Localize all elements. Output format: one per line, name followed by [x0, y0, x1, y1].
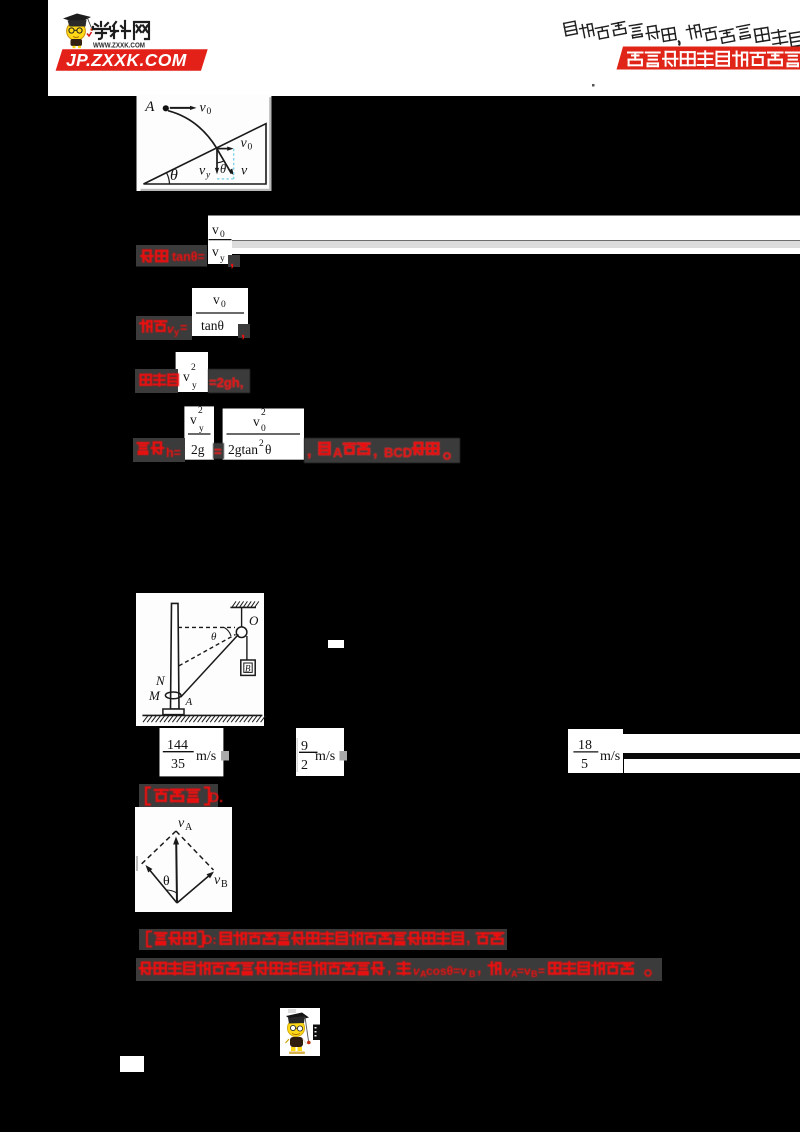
svg-text:v: v — [178, 816, 185, 831]
svg-text:θ: θ — [211, 631, 217, 643]
svg-text:y: y — [174, 327, 179, 337]
svg-text:O: O — [249, 613, 259, 628]
svg-text:,: , — [466, 930, 470, 947]
svg-text:v: v — [241, 164, 248, 179]
svg-text:v: v — [212, 222, 219, 237]
svg-text:=: = — [180, 321, 187, 335]
svg-text:A: A — [185, 822, 193, 833]
svg-text:v: v — [199, 164, 206, 179]
svg-text:θ: θ — [265, 442, 271, 457]
svg-text:M: M — [148, 688, 161, 703]
svg-text:cosθ=v: cosθ=v — [426, 964, 467, 978]
svg-text:v: v — [183, 369, 190, 384]
svg-text:θ: θ — [220, 162, 226, 176]
svg-text:v: v — [241, 136, 248, 151]
svg-text:v: v — [213, 292, 220, 307]
svg-text:=: = — [538, 964, 545, 978]
svg-text:B: B — [221, 879, 228, 890]
svg-text:y: y — [199, 424, 204, 434]
svg-text:v: v — [190, 412, 197, 427]
svg-text:0: 0 — [261, 424, 266, 434]
svg-text:A: A — [185, 696, 193, 708]
svg-text:v: v — [212, 244, 219, 259]
svg-text:,: , — [230, 253, 234, 270]
svg-text:=: = — [214, 444, 222, 459]
svg-text:θ: θ — [170, 167, 178, 184]
svg-text:2: 2 — [198, 406, 203, 416]
svg-text:BCD: BCD — [384, 445, 412, 460]
svg-text:2: 2 — [301, 758, 308, 773]
svg-text:tanθ: tanθ — [201, 318, 224, 333]
svg-text:v: v — [214, 873, 221, 888]
svg-text:0: 0 — [248, 143, 253, 153]
svg-text:2: 2 — [191, 363, 196, 373]
svg-text:A: A — [333, 445, 343, 460]
svg-text:m/s: m/s — [196, 749, 216, 764]
svg-text:,: , — [373, 443, 377, 460]
svg-text:tanθ=: tanθ= — [172, 250, 205, 264]
svg-text:2gtan: 2gtan — [228, 442, 258, 457]
svg-text:=2gh,: =2gh, — [209, 375, 243, 390]
svg-text:y: y — [220, 254, 225, 264]
svg-text:v: v — [253, 414, 260, 429]
svg-text:B: B — [245, 664, 251, 674]
svg-text:B: B — [531, 969, 538, 979]
svg-text:,: , — [387, 960, 391, 977]
svg-text:D:: D: — [203, 932, 217, 947]
svg-text:WWW.ZXXK.COM: WWW.ZXXK.COM — [93, 41, 145, 50]
svg-text:,: , — [241, 324, 245, 341]
svg-text:2: 2 — [261, 408, 266, 418]
svg-text:N: N — [155, 673, 166, 688]
svg-text:,: , — [307, 443, 311, 460]
svg-text:0: 0 — [221, 300, 226, 310]
svg-text:18: 18 — [578, 738, 592, 753]
svg-text:y: y — [205, 171, 211, 181]
svg-text:y: y — [192, 381, 197, 391]
svg-text:v: v — [200, 101, 207, 116]
svg-text:=v: =v — [517, 964, 531, 978]
svg-text:,: , — [477, 960, 481, 977]
svg-text:m/s: m/s — [600, 749, 620, 764]
svg-text:h=: h= — [166, 446, 181, 460]
svg-text:θ: θ — [163, 874, 170, 889]
svg-text:A: A — [144, 99, 155, 115]
svg-text:144: 144 — [167, 738, 188, 753]
svg-text:0: 0 — [207, 107, 212, 117]
svg-text:2g: 2g — [191, 442, 205, 457]
svg-text:2: 2 — [259, 439, 264, 449]
svg-text:m/s: m/s — [315, 749, 335, 764]
svg-text:D.: D. — [209, 789, 223, 805]
svg-text:0: 0 — [220, 230, 225, 240]
svg-text:35: 35 — [171, 757, 185, 772]
svg-text:B: B — [469, 969, 476, 979]
svg-text:JP.ZXXK.COM: JP.ZXXK.COM — [66, 50, 187, 70]
svg-text:5: 5 — [581, 757, 588, 772]
